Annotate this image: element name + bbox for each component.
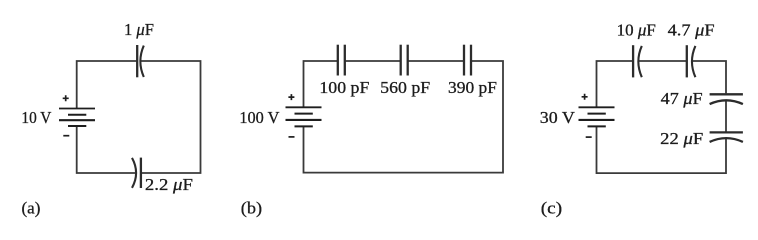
- svg-text:47 μF: 47 μF: [661, 89, 703, 108]
- svg-text:(c): (c): [541, 199, 562, 218]
- svg-text:10 V: 10 V: [21, 108, 52, 127]
- svg-text:560 pF: 560 pF: [380, 78, 430, 97]
- svg-text:(b): (b): [241, 199, 262, 218]
- svg-text:30 V: 30 V: [540, 108, 576, 127]
- svg-text:390 pF: 390 pF: [448, 78, 497, 97]
- svg-text:22 μF: 22 μF: [660, 129, 703, 148]
- svg-text:(a): (a): [22, 199, 41, 218]
- svg-text:4.7 μF: 4.7 μF: [668, 21, 715, 40]
- svg-text:100 V: 100 V: [239, 108, 280, 127]
- svg-text:2.2 μF: 2.2 μF: [145, 175, 193, 194]
- svg-text:100 pF: 100 pF: [319, 78, 369, 97]
- svg-text:1 μF: 1 μF: [124, 20, 154, 39]
- svg-text:10 μF: 10 μF: [617, 21, 656, 40]
